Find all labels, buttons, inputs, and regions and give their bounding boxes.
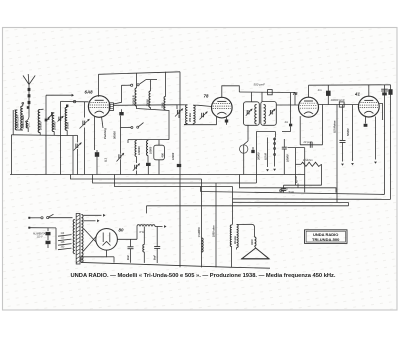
electrolytic C16 <box>283 185 285 188</box>
trimmer C3 on osc <box>58 117 60 121</box>
coil L5 oscillator grid <box>52 113 54 132</box>
svg-text:Padding: Padding <box>103 128 107 139</box>
line filter capacitors C17 C18 <box>47 228 49 231</box>
antenna <box>28 85 30 118</box>
T4 primary bottom to bus <box>231 247 233 268</box>
svg-text:1500: 1500 <box>160 102 164 108</box>
resistor R12 <box>143 227 145 245</box>
wire resistor bottoms <box>137 106 170 140</box>
AC line 2 <box>29 227 56 229</box>
coil L3 (onde corte) <box>26 122 28 129</box>
svg-text:30000: 30000 <box>145 99 149 107</box>
svg-text:100000: 100000 <box>54 121 57 130</box>
svg-text:50000: 50000 <box>112 131 116 139</box>
volume potentiometer R7 <box>267 138 269 168</box>
svg-text:ONDA LGA: ONDA LGA <box>17 115 20 128</box>
svg-text:50000: 50000 <box>346 128 350 136</box>
capacitor C13 <box>283 139 285 147</box>
svg-text:20000: 20000 <box>256 152 260 161</box>
wire diode load L <box>256 131 275 133</box>
svg-text:450 kHz: 450 kHz <box>189 112 192 123</box>
IF transformer T2 box 1 <box>244 102 260 126</box>
wire AVC with arrow <box>46 94 72 96</box>
capacitor C5 <box>119 112 123 115</box>
wire 6A8 top cap <box>98 74 100 97</box>
svg-text:8mF: 8mF <box>127 255 130 260</box>
voice coil loop <box>237 224 255 237</box>
capacitor C4 cathode <box>95 152 99 157</box>
78 cathode stubs <box>216 117 218 125</box>
wire 78 plate loop <box>222 86 240 98</box>
svg-text:0,5 M: 0,5 M <box>263 153 267 160</box>
svg-text:500 pmF: 500 pmF <box>254 83 266 87</box>
coil L4 aerial secondary <box>38 110 40 133</box>
resistor R4 <box>135 141 137 157</box>
wire osc grid diagonal <box>113 85 121 104</box>
svg-text:80: 80 <box>119 228 124 233</box>
trimmer C2 <box>77 136 79 143</box>
tube V1 6A8 <box>88 96 110 118</box>
wires around R11 <box>296 163 302 165</box>
svg-text:8 W: 8 W <box>140 231 145 234</box>
wire drop x216 <box>215 183 217 267</box>
capacitor C8 <box>147 156 149 163</box>
capacitor C14 <box>290 93 292 124</box>
bus B2 <box>71 175 202 180</box>
svg-text:1000 ohm: 1000 ohm <box>213 225 216 237</box>
label box UNDA RADIO TRI-UNDA-500 <box>305 230 348 244</box>
AC line 1 with switch S5 <box>29 217 41 219</box>
svg-text:78: 78 <box>204 94 209 99</box>
svg-text:6A8: 6A8 <box>85 90 94 95</box>
band switch S2 <box>122 84 131 86</box>
filter choke L7 <box>137 225 155 227</box>
output transformer T4 <box>231 224 234 225</box>
plate cap stack x384.5 <box>384 85 386 195</box>
svg-text:CAMPO: CAMPO <box>197 227 201 237</box>
label 2 <box>297 184 299 188</box>
svg-text:0,5 Mohm: 0,5 Mohm <box>333 120 337 133</box>
resistor R2 30000 <box>150 80 152 91</box>
wire grid of 6A8 <box>60 101 88 103</box>
tube V4 41 <box>358 96 379 117</box>
IF2 top feeds <box>251 92 253 102</box>
jack J1 (pickup) <box>240 145 248 153</box>
bus B1 ground <box>10 174 305 176</box>
tube V5 80 rectifier <box>96 229 118 251</box>
capacitor C12 <box>251 150 254 153</box>
wire drop x232.5 <box>232 187 234 225</box>
svg-text:ODO: ODO <box>251 239 254 245</box>
filter capacitor C19 <box>130 239 132 246</box>
pickup label <box>280 189 283 192</box>
IF transformer T1 <box>177 104 185 106</box>
wire 75 plate to 41 grid <box>318 104 358 106</box>
capacitor C11 500pmF <box>268 90 273 95</box>
resistor chain R9 <box>342 105 344 141</box>
75 cathode chain <box>299 116 301 145</box>
bus B5 <box>201 192 385 195</box>
svg-text:ONDA MED: ONDA MED <box>22 115 25 129</box>
wire T1 secondary to 78 grid <box>198 105 212 106</box>
coil L2 (onde medie) <box>21 106 23 130</box>
svg-text:8mF: 8mF <box>154 255 157 260</box>
80 cathode bottom <box>81 250 107 262</box>
bus B3 <box>93 175 257 184</box>
svg-text:P.U.: P.U. <box>284 187 289 191</box>
wire cluster rail <box>128 139 169 141</box>
svg-text:1m: 1m <box>318 88 323 92</box>
wire drop x201.5 (campo) <box>201 179 203 267</box>
41 cathode stubs <box>365 117 367 124</box>
resistor R1 50000 <box>136 73 138 88</box>
wire rail 78 plate to IF2 <box>239 91 295 94</box>
trimmer arrow on L4 <box>48 115 53 120</box>
svg-text:UNDA RADIO. — Modelli « Tri-Un: UNDA RADIO. — Modelli « Tri-Unda-500 e 5… <box>71 273 337 279</box>
svg-text:110 V: 110 V <box>37 236 43 239</box>
coil L1 (onde lunghe) <box>15 110 17 130</box>
resistor R6 in box <box>154 145 165 160</box>
svg-text:2: 2 <box>295 180 298 184</box>
T3 primary <box>73 220 75 254</box>
voltage taps <box>58 235 72 237</box>
coil L6 oscillator anode <box>65 107 67 130</box>
drops to ground bus <box>72 136 74 175</box>
coil bottom hooks and bus <box>17 129 23 131</box>
power transformer T3 core <box>76 214 80 265</box>
svg-text:20 pmF: 20 pmF <box>303 141 313 144</box>
6A8 side grid box <box>109 103 113 111</box>
wire 75 top <box>308 85 310 97</box>
svg-text:0,1: 0,1 <box>104 158 108 162</box>
bus B8 <box>147 205 349 207</box>
rail 75 to 41 <box>309 84 391 86</box>
wire volume out <box>288 147 305 149</box>
resistor R11 zigzag <box>301 162 322 166</box>
wire padder top <box>121 127 132 129</box>
tube V3 75 <box>299 97 319 117</box>
IF transformer T2 box 2 <box>261 102 277 126</box>
resistor R5 <box>147 141 149 156</box>
wire grid leak x337 <box>336 105 338 203</box>
speaker cone <box>242 248 269 259</box>
padding trimmer C6 <box>118 154 120 158</box>
HT wires to rectifier <box>84 229 97 243</box>
wire heater run <box>240 175 337 193</box>
right stack x390.5 <box>390 85 392 199</box>
svg-text:10000: 10000 <box>148 146 152 154</box>
svg-text:75: 75 <box>293 91 298 96</box>
svg-text:1 Mohm: 1 Mohm <box>303 158 313 162</box>
variable capacitor C1 (tuning) <box>84 102 86 118</box>
resistor R3 1500 <box>165 72 167 97</box>
capacitor C15 10000pmF <box>339 102 344 107</box>
svg-text:200000: 200000 <box>40 121 43 131</box>
bus B7 <box>233 201 349 203</box>
tube V2 78 <box>212 97 233 118</box>
trimmer C9 <box>176 110 178 114</box>
wire antenna to coils <box>25 117 29 122</box>
trimmer C7 <box>136 157 138 164</box>
filter capacitor C20 <box>156 227 158 247</box>
rectifier output wire <box>117 238 137 240</box>
svg-text:41: 41 <box>354 92 360 97</box>
svg-text:10000: 10000 <box>286 154 290 162</box>
T3 secondary <box>81 215 83 263</box>
bottom bus B9 <box>81 262 233 267</box>
switch S3 <box>131 127 133 129</box>
svg-text:Rivelaz: Rivelaz <box>234 235 237 244</box>
svg-text:400: 400 <box>161 153 165 159</box>
svg-text:10000: 10000 <box>171 152 175 160</box>
svg-text:50000: 50000 <box>67 121 70 129</box>
bus B6 <box>233 198 391 200</box>
wire: coil bus <box>13 134 78 137</box>
wire T2 to 75 grid <box>276 104 298 106</box>
svg-text:TRI-UNDA-500: TRI-UNDA-500 <box>312 237 340 242</box>
bus B4 <box>115 175 233 187</box>
wire top rail A <box>99 72 181 75</box>
heater wires with arrows <box>84 214 102 216</box>
wire T1 bottoms <box>184 124 188 125</box>
trimmer C10 <box>201 113 203 117</box>
switch S4 contacts <box>274 138 276 167</box>
wire T2 sec bottom <box>247 125 249 141</box>
svg-text:20000 P: 20000 P <box>131 95 135 106</box>
wire plate to IF1 <box>113 104 177 107</box>
svg-text:100000: 100000 <box>137 146 141 155</box>
6A8 cathode wires <box>94 117 96 151</box>
svg-text:10000 pmF: 10000 pmF <box>331 98 345 102</box>
41 plate wire <box>379 104 382 121</box>
resistor chain R10 <box>352 105 354 161</box>
svg-text:O.C.: O.C. <box>28 122 31 127</box>
long vertical drop x=180 <box>179 72 181 267</box>
